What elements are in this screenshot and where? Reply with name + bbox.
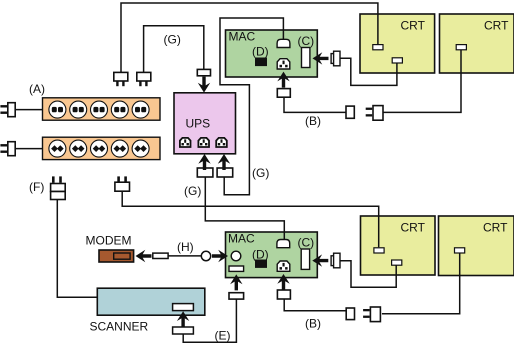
svg-text:(B): (B) <box>305 114 321 128</box>
wire: UPS outlet connector A down to MAC2 power inlet <box>205 177 284 241</box>
wire: top B plug to CRT2 power inlet <box>382 50 461 112</box>
connector B rect (top pair) <box>346 106 354 118</box>
MAC1 power outlet (IEC) <box>277 59 290 69</box>
wire: wall plug (bottom G) long run to CRT3 connector 1 <box>122 191 379 247</box>
svg-text:(C): (C) <box>298 34 315 48</box>
connector B rect (bottom pair) <box>346 308 354 320</box>
svg-text:SCANNER: SCANNER <box>90 320 149 334</box>
wall plug 1 (CRT1 cord) <box>114 72 128 86</box>
CRT1 connector 1 <box>373 45 383 50</box>
wire: CRT1 video-in down to wall plug near strip A (long top run) <box>121 3 378 72</box>
arrow into MAC1 power outlet <box>277 72 289 88</box>
strip A2 outlets <box>49 140 66 157</box>
arrow into MAC2 power outlet <box>277 274 289 290</box>
arrow into MAC2 phone port <box>212 250 228 262</box>
plug B (top pair, prongs left) <box>366 106 383 121</box>
scanner box <box>97 288 205 315</box>
svg-text:(E): (E) <box>215 329 231 343</box>
arrow into modem <box>136 250 152 262</box>
svg-text:(B): (B) <box>305 317 321 331</box>
MAC1 (D) port black rect <box>255 58 267 67</box>
power strip A2 <box>43 137 161 159</box>
MAC1 video slot C <box>302 48 310 68</box>
strip A1 outlets <box>49 101 66 118</box>
svg-text:UPS: UPS <box>186 117 211 131</box>
CRT 4 box <box>439 216 514 276</box>
UPS outlet 1 <box>180 138 191 147</box>
connector: UPS outlet cord B <box>217 168 233 177</box>
CRT2 connector <box>456 45 466 50</box>
wire: MAC2 video plug to CRT3 connector 2 <box>340 261 396 288</box>
connector H (flat) <box>153 253 168 258</box>
svg-text:(H): (H) <box>177 240 194 254</box>
svg-text:CRT: CRT <box>401 19 426 33</box>
CRT3 connector 2 <box>392 260 402 265</box>
plug F (double body, prongs up) <box>51 176 66 199</box>
MAC1 video plug <box>331 51 340 66</box>
svg-text:MODEM: MODEM <box>86 234 132 248</box>
connector: UPS outlet cord A <box>197 168 213 177</box>
wall plug 2 (UPS cord) <box>137 72 151 86</box>
wire: MAC1 video plug to CRT1 connector 2 <box>340 58 397 85</box>
arrow into UPS bottom (A) <box>198 154 210 170</box>
arrow into MAC2 SCSI port <box>230 274 242 290</box>
MAC2 (D) port black rect <box>255 260 267 268</box>
CRT 2 box <box>440 14 514 73</box>
svg-text:CRT: CRT <box>401 221 426 235</box>
connector: cable E to scanner <box>173 327 194 334</box>
svg-text:(A): (A) <box>29 82 45 96</box>
svg-text:(G): (G) <box>184 184 201 198</box>
svg-text:CRT: CRT <box>483 221 508 235</box>
arrow into UPS top <box>198 77 210 93</box>
arrow into UPS bottom (B) <box>218 154 230 170</box>
modem box <box>99 250 134 262</box>
MAC2 video plug <box>331 253 340 268</box>
CRT3 connector 1 <box>374 248 384 253</box>
wall plug into strip A2 <box>0 142 15 156</box>
wire: plug F down to scanner <box>57 200 97 297</box>
wire: modem connector H to round cable end <box>168 255 202 257</box>
power strip A1 <box>43 98 161 120</box>
arrow into MAC2 slot <box>312 254 328 266</box>
wall plug into strip A1 <box>0 103 15 117</box>
CRT 1 box <box>360 14 435 73</box>
svg-text:(F): (F) <box>29 180 44 194</box>
svg-text:(D): (D) <box>252 248 269 262</box>
MAC2 SCSI port (E) <box>229 266 244 271</box>
UPS outlet 2 <box>198 138 209 147</box>
MAC2 phone port circle <box>231 251 241 261</box>
svg-text:(D): (D) <box>252 45 269 59</box>
MAC2 power outlet (IEC) <box>277 261 290 271</box>
MAC1 power inlet DIN <box>277 39 290 47</box>
CRT1 connector 2 <box>392 58 402 63</box>
MAC 2 box <box>226 232 318 278</box>
wire: MAC2 aux power out to connector B (bottom pair) <box>284 299 346 311</box>
wire: MAC1 aux power out to connector B (top pair) <box>284 97 346 112</box>
svg-text:MAC: MAC <box>228 232 255 246</box>
svg-text:(G): (G) <box>164 33 181 47</box>
MAC2 power inlet DIN <box>277 240 290 248</box>
connector: UPS input plug (above UPS) <box>197 69 210 75</box>
wire: UPS outlet connector B to MAC1 power inlet (around left of MAC1) <box>220 18 283 195</box>
connector: MAC2 aux power cord <box>277 290 290 299</box>
scanner port connector <box>173 304 194 311</box>
wire: wall plug G to UPS input connector, (G) bracket <box>144 26 204 73</box>
wire: scanner cable E down and to MAC2 port connector <box>183 300 236 343</box>
arrow into MAC1 slot <box>313 52 329 64</box>
CRT 3 box <box>361 216 436 275</box>
round cable end H <box>201 251 210 260</box>
connector: cable E to MAC2 <box>229 293 244 299</box>
svg-text:(G): (G) <box>252 166 269 180</box>
wire: left plug into strip A2 <box>16 148 43 150</box>
connector: MAC1 aux power cord <box>277 89 290 98</box>
wall plug (bottom G, CRT3 cord, prongs up) <box>115 176 130 191</box>
plug B (bottom pair, prongs left) <box>363 307 380 322</box>
svg-text:CRT: CRT <box>484 19 509 33</box>
svg-text:MAC: MAC <box>229 30 256 44</box>
MAC2 video slot C <box>301 249 309 269</box>
arrow into scanner port <box>177 311 189 327</box>
wire: left plug into strip A1 <box>16 109 43 111</box>
UPS unit <box>174 93 236 154</box>
svg-text:(C): (C) <box>298 236 315 250</box>
MAC 1 box <box>226 30 318 77</box>
UPS outlet 3 <box>216 138 227 147</box>
CRT4 connector <box>455 248 465 253</box>
modem port rect <box>114 253 130 259</box>
wire: bottom B plug to CRT4 power inlet <box>382 253 460 314</box>
